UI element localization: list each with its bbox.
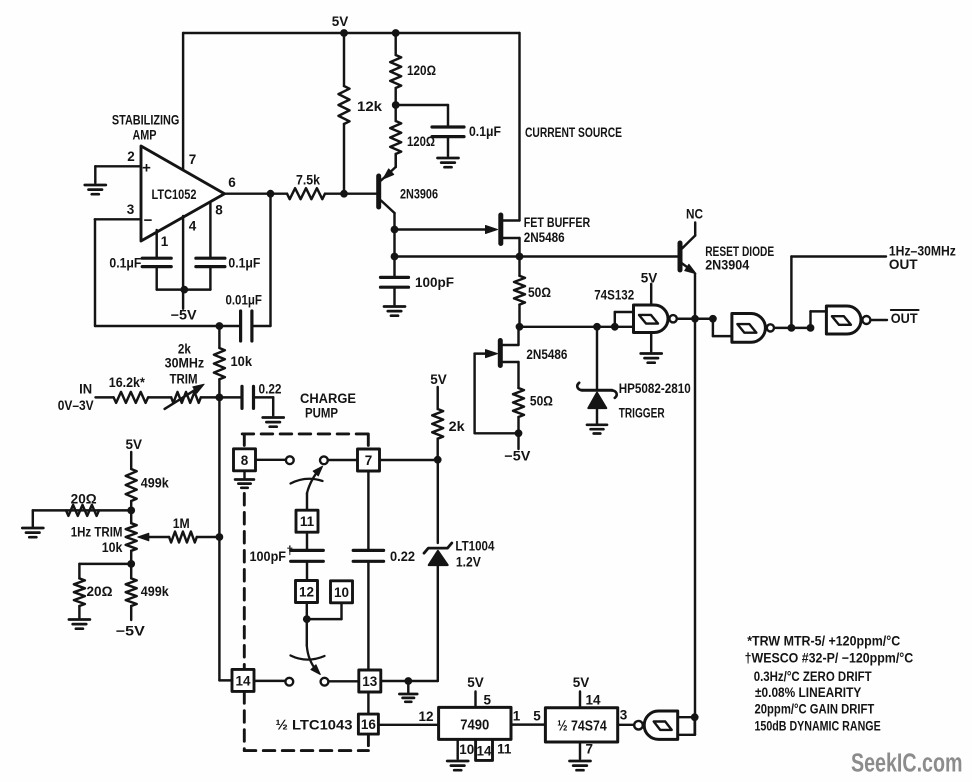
svg-text:−5V: −5V [116,624,145,639]
svg-text:2N5486: 2N5486 [526,347,567,362]
svg-text:11: 11 [497,742,512,757]
svg-text:50Ω: 50Ω [528,285,551,300]
svg-text:2: 2 [127,149,135,164]
svg-text:7: 7 [189,152,197,167]
svg-text:PUMP: PUMP [305,406,338,421]
svg-text:10: 10 [459,742,474,757]
svg-text:TRIM: TRIM [170,372,198,387]
svg-text:TRIGGER: TRIGGER [619,406,665,421]
svg-text:2N3904: 2N3904 [705,258,749,273]
svg-text:20ppm/°C GAIN DRIFT: 20ppm/°C GAIN DRIFT [755,702,875,717]
svg-text:6: 6 [228,175,236,190]
svg-text:3: 3 [127,202,135,217]
svg-text:SeekIC.com: SeekIC.com [851,750,963,778]
svg-text:−: − [144,212,153,229]
svg-text:4: 4 [189,219,197,234]
svg-text:5V: 5V [467,675,484,690]
svg-text:†WESCO #32-P/ −120ppm/°C: †WESCO #32-P/ −120ppm/°C [745,651,914,666]
svg-text:5V: 5V [573,675,590,690]
svg-text:499k: 499k [141,584,169,599]
svg-text:100pF: 100pF [250,549,287,564]
svg-text:STABILIZING: STABILIZING [112,113,180,128]
svg-text:12k: 12k [357,99,383,114]
svg-text:½ 74S74: ½ 74S74 [557,718,607,735]
svg-text:16.2k*: 16.2k* [109,375,146,390]
svg-text:7490: 7490 [460,717,489,734]
svg-text:20Ω: 20Ω [87,584,113,599]
svg-text:7: 7 [365,453,373,468]
svg-text:5: 5 [484,693,492,708]
svg-text:1.2V: 1.2V [456,555,481,570]
svg-text:50Ω: 50Ω [530,394,553,409]
svg-text:10k: 10k [102,540,123,555]
svg-text:5V: 5V [641,271,658,286]
svg-text:100pF: 100pF [415,275,454,290]
svg-text:10: 10 [334,585,349,600]
svg-text:CURRENT SOURCE: CURRENT SOURCE [525,125,622,140]
svg-text:5V: 5V [125,437,142,452]
svg-text:13: 13 [362,674,378,689]
svg-text:5: 5 [533,709,541,724]
svg-text:OUT: OUT [889,257,918,272]
svg-text:5V: 5V [332,14,349,29]
svg-text:8: 8 [215,203,223,218]
svg-text:0.3Hz/°C ZERO DRIFT: 0.3Hz/°C ZERO DRIFT [754,669,873,684]
svg-text:12: 12 [299,585,314,600]
svg-text:499k: 499k [141,476,169,491]
svg-text:30MHz: 30MHz [165,356,205,371]
svg-text:1Hz TRIM: 1Hz TRIM [71,525,123,540]
svg-text:LT1004: LT1004 [455,539,494,554]
svg-text:2k: 2k [449,419,466,434]
svg-text:1: 1 [513,709,521,724]
svg-text:±0.08% LINEARITY: ±0.08% LINEARITY [755,685,861,700]
svg-text:7.5k: 7.5k [296,173,320,188]
svg-text:0.1μF: 0.1μF [228,256,260,271]
svg-text:0.1μF: 0.1μF [469,124,501,139]
svg-text:1: 1 [161,234,169,249]
svg-text:16: 16 [361,717,377,732]
svg-text:AMP: AMP [133,128,157,143]
svg-text:8: 8 [241,453,249,468]
svg-text:14: 14 [586,693,602,708]
svg-text:5V: 5V [430,372,447,387]
svg-text:120Ω: 120Ω [407,63,436,78]
svg-text:20Ω: 20Ω [71,492,97,507]
svg-text:+: + [142,160,151,177]
svg-text:2N3906: 2N3906 [400,187,438,202]
svg-text:2N5486: 2N5486 [524,230,565,245]
svg-text:†: † [287,544,294,558]
svg-text:OUT: OUT [891,311,919,326]
svg-text:0V–3V: 0V–3V [58,398,94,413]
svg-text:1M: 1M [173,516,190,531]
svg-text:FET BUFFER: FET BUFFER [524,215,591,230]
svg-text:CHARGE: CHARGE [300,391,356,406]
svg-text:NC: NC [686,207,703,222]
svg-text:14: 14 [476,744,492,759]
svg-text:74S132: 74S132 [594,288,634,303]
svg-text:0.22: 0.22 [390,549,415,564]
svg-text:−5V: −5V [171,308,197,323]
svg-text:14: 14 [235,673,251,688]
svg-text:LTC1052: LTC1052 [152,187,197,202]
svg-text:2k: 2k [178,342,191,357]
svg-text:12: 12 [418,709,433,724]
svg-text:−5V: −5V [504,449,530,464]
svg-text:0.22: 0.22 [259,382,282,397]
svg-text:7: 7 [586,742,594,757]
svg-text:½ LTC1043: ½ LTC1043 [276,718,354,733]
svg-text:3: 3 [620,708,628,723]
svg-text:IN: IN [79,382,92,397]
svg-text:HP5082-2810: HP5082-2810 [619,381,691,396]
svg-text:0.01μF: 0.01μF [225,293,262,308]
svg-text:150dB DYNAMIC RANGE: 150dB DYNAMIC RANGE [755,719,881,734]
svg-text:10k: 10k [231,354,253,369]
svg-text:*TRW MTR-5/ +120ppm/°C: *TRW MTR-5/ +120ppm/°C [747,634,900,649]
svg-text:0.1μF: 0.1μF [109,256,141,271]
svg-text:11: 11 [300,514,315,529]
